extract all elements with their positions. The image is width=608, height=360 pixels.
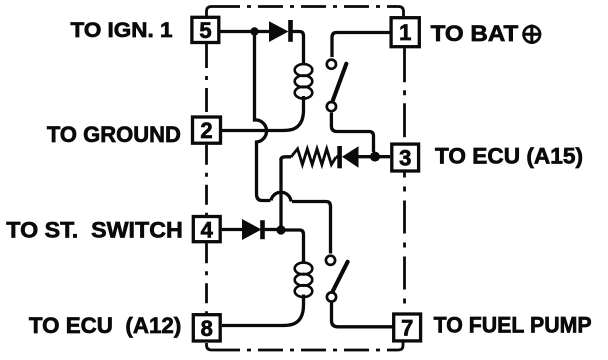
svg-text:TO GROUND: TO GROUND [47, 122, 181, 147]
svg-text:TO ECU (A12): TO ECU (A12) [29, 313, 181, 338]
svg-text:1: 1 [399, 20, 411, 45]
svg-text:7: 7 [401, 316, 413, 341]
svg-text:8: 8 [201, 316, 213, 341]
svg-text:TO ECU (A15): TO ECU (A15) [435, 144, 583, 169]
svg-text:TO ST. SWITCH: TO ST. SWITCH [6, 218, 183, 243]
svg-text:5: 5 [199, 18, 211, 43]
svg-text:2: 2 [200, 118, 212, 143]
svg-text:TO BAT: TO BAT [431, 21, 519, 46]
svg-text:4: 4 [201, 218, 214, 243]
svg-text:TO IGN. 1: TO IGN. 1 [71, 19, 173, 42]
svg-text:3: 3 [399, 146, 411, 171]
svg-text:TO FUEL PUMP: TO FUEL PUMP [434, 313, 592, 338]
